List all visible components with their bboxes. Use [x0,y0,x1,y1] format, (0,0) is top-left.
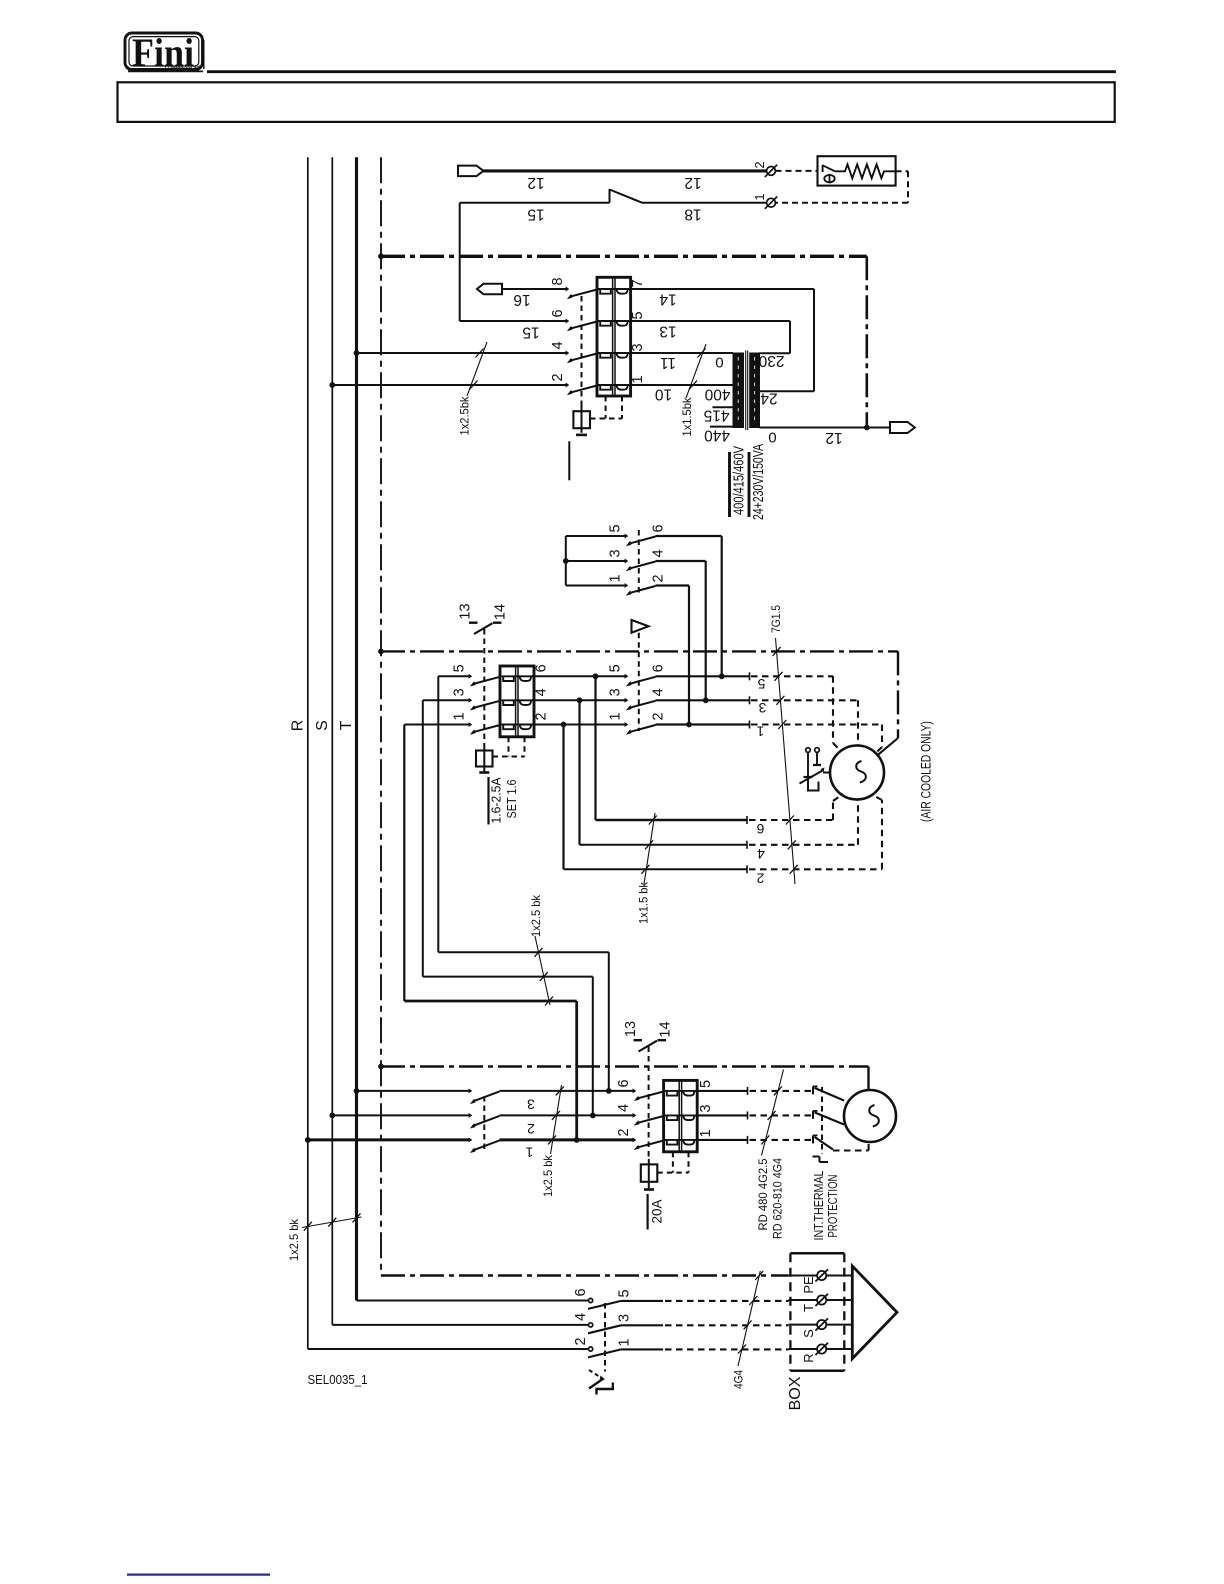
svg-text:400/415/460V: 400/415/460V [730,446,747,515]
svg-text:2: 2 [616,1128,632,1136]
svg-text:1.6-2.5A: 1.6-2.5A [489,777,504,823]
svg-text:13: 13 [458,603,474,619]
svg-text:3: 3 [758,700,766,716]
svg-text:18: 18 [684,206,701,223]
svg-text:4: 4 [651,688,667,696]
svg-text:2: 2 [756,871,764,887]
svg-text:COMPRESSORS: COMPRESSORS [165,66,201,72]
svg-text:6: 6 [756,821,764,837]
svg-text:24+230V/150VA: 24+230V/150VA [750,444,767,520]
svg-text:6: 6 [550,309,566,317]
svg-text:1x2.5bk: 1x2.5bk [458,396,472,436]
svg-text:3: 3 [527,1097,535,1113]
svg-text:1: 1 [630,375,646,383]
svg-text:415: 415 [704,406,730,423]
svg-text:1x1.5 bk: 1x1.5 bk [637,881,651,924]
svg-text:1: 1 [752,193,767,200]
svg-text:PE: PE [801,1276,816,1294]
svg-text:1: 1 [698,1129,714,1137]
svg-text:RD 620-810 4G4: RD 620-810 4G4 [771,1158,785,1239]
svg-text:6: 6 [651,524,667,532]
svg-text:14: 14 [658,1021,674,1037]
svg-text:3: 3 [452,688,468,696]
svg-text:4: 4 [573,1313,589,1321]
svg-text:3: 3 [608,688,624,696]
svg-text:11: 11 [660,354,676,371]
svg-text:2: 2 [752,161,767,168]
svg-text:230: 230 [758,352,784,369]
svg-text:T: T [801,1304,816,1312]
svg-text:1x2.5 bk: 1x2.5 bk [541,1154,555,1197]
svg-text:440: 440 [704,427,730,444]
svg-text:400: 400 [704,386,730,403]
svg-text:4G4: 4G4 [732,1370,746,1389]
svg-text:4: 4 [757,846,765,862]
svg-text:15: 15 [522,324,539,341]
svg-text:5: 5 [608,664,624,672]
svg-text:24: 24 [760,390,778,407]
svg-text:T: T [338,720,355,730]
svg-text:2: 2 [527,1121,535,1137]
svg-text:15: 15 [527,206,544,223]
svg-text:2: 2 [573,1337,589,1345]
svg-text:SET 1.6: SET 1.6 [504,780,519,819]
svg-text:3: 3 [698,1104,714,1112]
svg-text:6: 6 [573,1288,589,1296]
svg-text:BOX: BOX [787,1376,804,1411]
svg-text:1x2.5 bk: 1x2.5 bk [287,1218,301,1261]
svg-text:1x1.5bk: 1x1.5bk [680,397,694,437]
svg-text:13: 13 [659,323,676,340]
svg-text:2: 2 [651,574,667,582]
svg-text:S: S [801,1329,816,1338]
svg-text:12: 12 [684,174,701,191]
svg-text:6: 6 [534,664,550,672]
svg-text:12: 12 [825,429,842,446]
svg-text:4: 4 [651,549,667,557]
svg-text:13: 13 [623,1021,639,1037]
svg-text:INT.THERMAL: INT.THERMAL [811,1171,826,1241]
svg-text:1: 1 [608,574,624,582]
svg-text:PROTECTION: PROTECTION [825,1175,840,1238]
svg-text:7G1.5: 7G1.5 [769,605,783,633]
svg-text:3: 3 [617,1314,633,1322]
svg-text:14: 14 [493,604,509,620]
svg-text:5: 5 [757,676,765,692]
svg-text:1: 1 [525,1145,533,1161]
svg-text:R: R [801,1353,816,1362]
svg-text:1: 1 [608,712,624,720]
svg-text:2: 2 [534,712,550,720]
svg-text:5: 5 [452,664,468,672]
svg-text:0: 0 [715,354,723,371]
svg-text:3: 3 [630,343,646,351]
svg-text:4: 4 [550,341,566,349]
svg-text:4: 4 [616,1104,632,1112]
svg-text:20A: 20A [650,1200,665,1224]
svg-text:8: 8 [550,277,566,285]
svg-text:5: 5 [617,1289,633,1297]
svg-text:6: 6 [616,1079,632,1087]
svg-text:RD 480 4G2.5: RD 480 4G2.5 [756,1158,770,1230]
svg-text:14: 14 [659,291,677,308]
svg-text:16: 16 [513,291,530,308]
svg-text:1: 1 [756,724,764,740]
svg-text:12: 12 [527,174,544,191]
svg-text:10: 10 [655,386,673,403]
svg-text:R: R [290,720,307,732]
svg-text:5: 5 [698,1080,714,1088]
svg-text:(AIR COOLED ONLY): (AIR COOLED ONLY) [918,721,933,822]
svg-text:4: 4 [534,688,550,696]
svg-text:S: S [314,720,331,731]
svg-text:2: 2 [550,373,566,381]
svg-text:7: 7 [630,279,646,287]
svg-text:6: 6 [651,664,667,672]
svg-text:5: 5 [630,311,646,319]
svg-text:5: 5 [608,524,624,532]
svg-text:2: 2 [651,712,667,720]
svg-text:3: 3 [608,549,624,557]
svg-text:0: 0 [768,428,776,445]
svg-text:1x2.5 bk: 1x2.5 bk [529,894,543,937]
svg-text:SEL0035_1: SEL0035_1 [308,1372,368,1387]
svg-text:1: 1 [617,1338,633,1346]
svg-text:1: 1 [452,712,468,720]
